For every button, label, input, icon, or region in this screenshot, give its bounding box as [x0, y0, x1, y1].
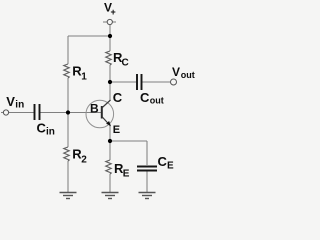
svg-text:C: C [37, 121, 47, 136]
svg-text:out: out [150, 95, 164, 105]
svg-text:C: C [113, 90, 123, 105]
svg-text:E: E [123, 169, 130, 180]
svg-text:2: 2 [81, 155, 87, 166]
svg-text:+: + [111, 7, 116, 17]
svg-text:out: out [181, 70, 195, 80]
svg-text:1: 1 [81, 72, 87, 83]
svg-text:in: in [46, 127, 55, 138]
svg-text:C: C [122, 58, 129, 69]
svg-text:V: V [172, 65, 180, 79]
svg-text:in: in [15, 99, 24, 110]
svg-text:E: E [113, 124, 120, 136]
svg-text:B: B [90, 101, 99, 115]
svg-text:C: C [140, 90, 150, 105]
svg-text:C: C [158, 154, 168, 169]
svg-text:E: E [167, 161, 174, 172]
svg-text:V: V [6, 94, 15, 109]
